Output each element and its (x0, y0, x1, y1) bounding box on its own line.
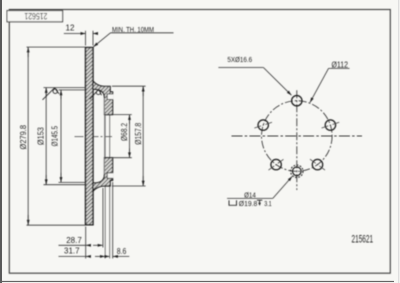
svg-text:Ø112: Ø112 (332, 61, 349, 70)
disc band (section) (86, 48, 94, 225)
svg-text:Ø145.5: Ø145.5 (51, 125, 60, 146)
bolt circle PCD 112 (262, 101, 333, 172)
svg-text:5XØ16.6: 5XØ16.6 (227, 55, 252, 64)
bolt hole 2 (upper left) (254, 120, 272, 130)
hat shoulder bottom (93, 158, 113, 191)
surface finish symbol left (43, 88, 60, 100)
dimension 12 (64, 31, 98, 46)
bolt hole 3 (upper right) (322, 120, 340, 130)
svg-text:12: 12 (66, 24, 75, 33)
section centerline (75, 136, 113, 138)
svg-text:Ø68.2: Ø68.2 (120, 123, 129, 141)
dimension 8.6 (105, 182, 130, 259)
front view horizontal centerline (232, 135, 363, 137)
scan edge left (0, 0, 2, 283)
svg-text:3.1: 3.1 (264, 199, 272, 208)
dimension diameter 68.2 (104, 115, 132, 158)
svg-text:8.6: 8.6 (117, 247, 127, 256)
label diameter 14 counterbore (227, 176, 292, 198)
svg-text:215621: 215621 (352, 233, 374, 245)
front view vertical centerline (296, 90, 298, 190)
note MIN TH 10MM (93, 33, 173, 47)
svg-text:28.7: 28.7 (66, 236, 82, 245)
svg-text:MIN. TH. 10MM: MIN. TH. 10MM (112, 27, 154, 34)
dimension diameter 157.8 (112, 86, 146, 186)
hub face groove bottom (107, 173, 113, 179)
dimension diameter 145.5 (59, 90, 86, 182)
extension line 31.7 face (104, 96, 106, 259)
svg-text:Ø153: Ø153 (37, 127, 46, 145)
counterbore symbol (229, 200, 237, 205)
locating hole diameter 14 with counterbore 19.8 (291, 165, 303, 177)
svg-text:Ø157.8: Ø157.8 (134, 122, 143, 144)
label 5X diameter 16.6 (218, 68, 291, 96)
dimension diameter 279.8 (27, 47, 86, 225)
bolt hole 1 (top) (292, 96, 302, 106)
svg-text:215621: 215621 (24, 11, 47, 21)
extension line 8.6 left (109, 99, 111, 258)
dimension 31.7 (59, 248, 106, 259)
dimension 28.7 (59, 188, 103, 248)
label diameter 112 (310, 68, 350, 102)
hat shoulder top (93, 81, 113, 114)
title block box (7, 11, 63, 22)
bolt hole 5 (lower right) (310, 159, 325, 170)
svg-text:31.7: 31.7 (64, 246, 80, 255)
scan edge bottom (0, 281, 394, 282)
depth symbol (257, 200, 262, 206)
dimension diameter 153 (44, 88, 86, 185)
hat inner wall line (104, 98, 106, 174)
scan edge right (398, 0, 399, 283)
hub face groove top (107, 94, 113, 100)
svg-text:Ø279.8: Ø279.8 (19, 124, 28, 149)
svg-text:Ø19.8: Ø19.8 (239, 199, 257, 208)
bolt hole 4 (lower left) (269, 159, 284, 170)
surface finish symbol right (90, 89, 102, 99)
